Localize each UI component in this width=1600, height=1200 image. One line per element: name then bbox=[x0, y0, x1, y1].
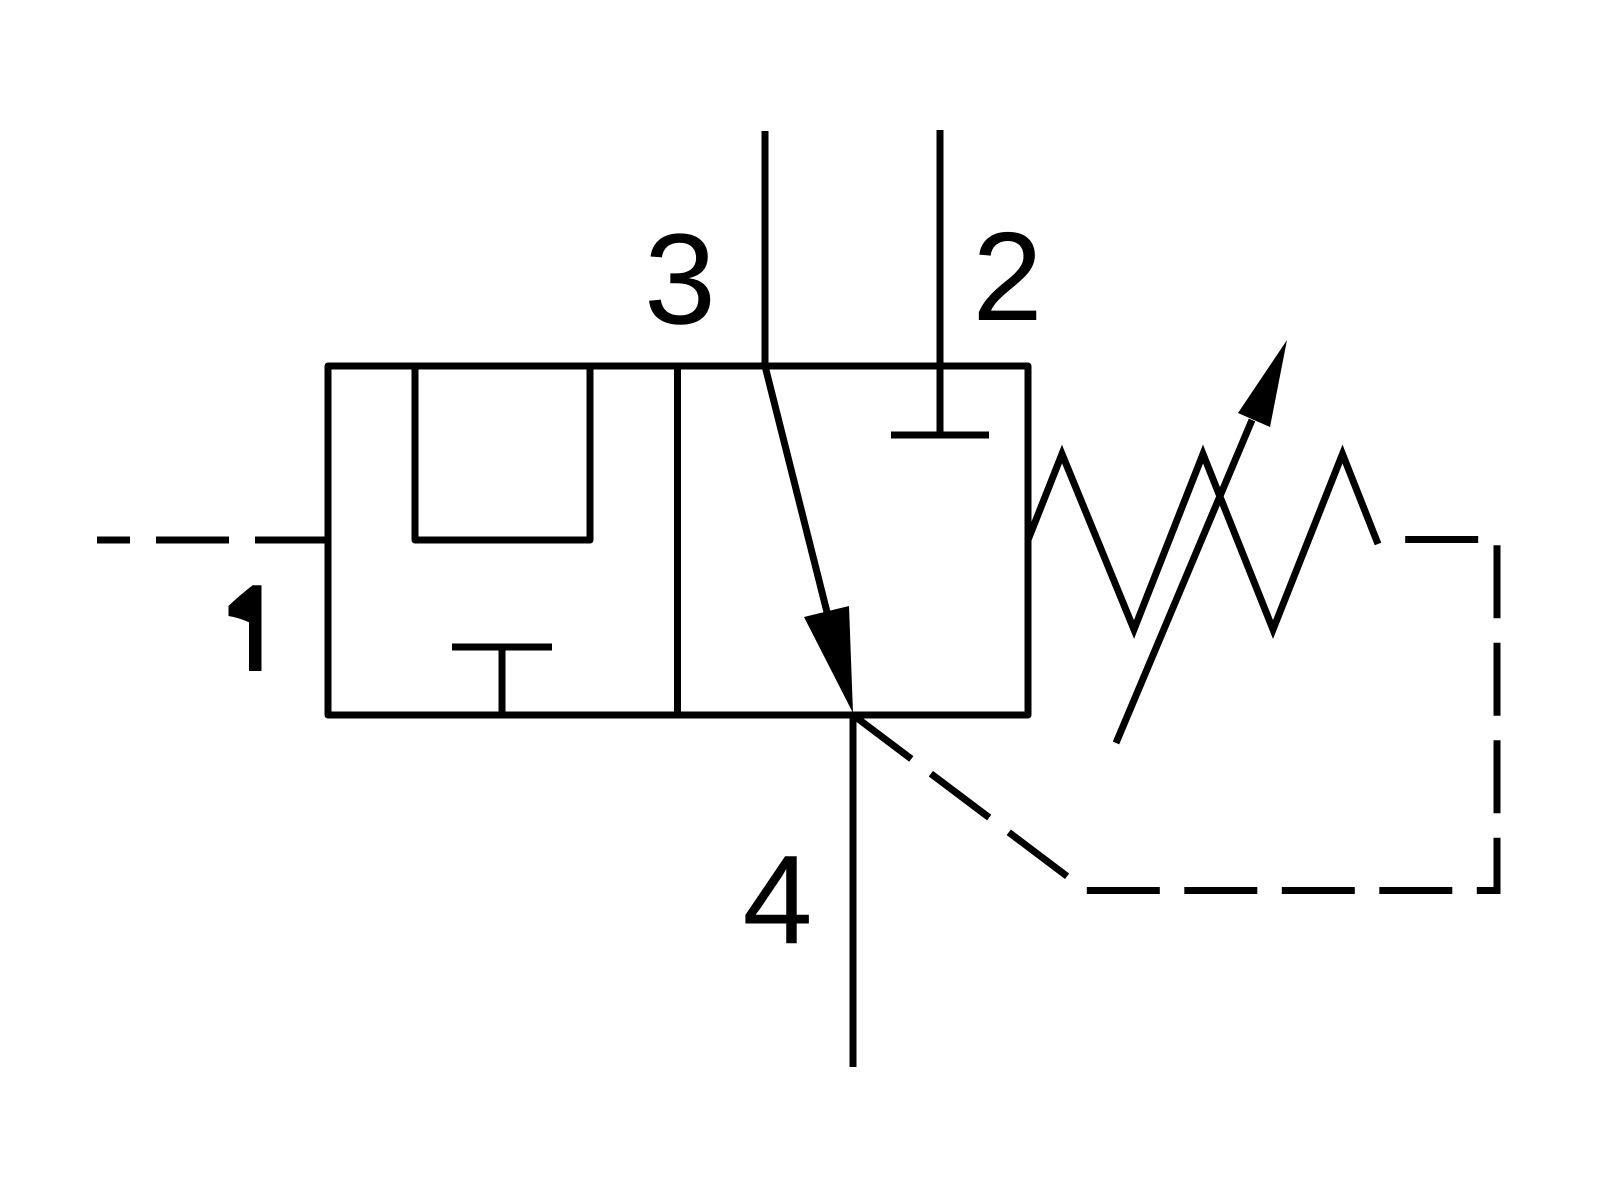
svg-text:2: 2 bbox=[972, 206, 1042, 347]
left position blocked port T (stem) bbox=[499, 647, 506, 715]
port 2 line bbox=[937, 130, 944, 435]
valve envelope (2-position body) bbox=[328, 366, 1028, 715]
left position U-shaped blocked path bbox=[415, 366, 590, 540]
right position flow arrowhead bbox=[804, 606, 853, 713]
right position flow arrow shaft bbox=[765, 366, 829, 620]
right position blocked port 2 T (bar) bbox=[891, 432, 989, 439]
svg-text:4: 4 bbox=[742, 829, 812, 970]
pilot feedback dashed line bbox=[853, 540, 1497, 891]
port 4 line bbox=[850, 715, 857, 1067]
adjustable spring bbox=[1028, 454, 1378, 630]
spring adjustment arrow shaft bbox=[1116, 420, 1252, 743]
spring adjustment arrowhead bbox=[1238, 340, 1287, 427]
port 1 pilot dashed line bbox=[97, 537, 328, 544]
left position blocked port T (bar) bbox=[452, 644, 552, 651]
svg-text:3: 3 bbox=[644, 208, 716, 352]
label 1 bbox=[229, 585, 262, 671]
position divider bbox=[674, 366, 681, 715]
port 3 line bbox=[762, 131, 769, 366]
